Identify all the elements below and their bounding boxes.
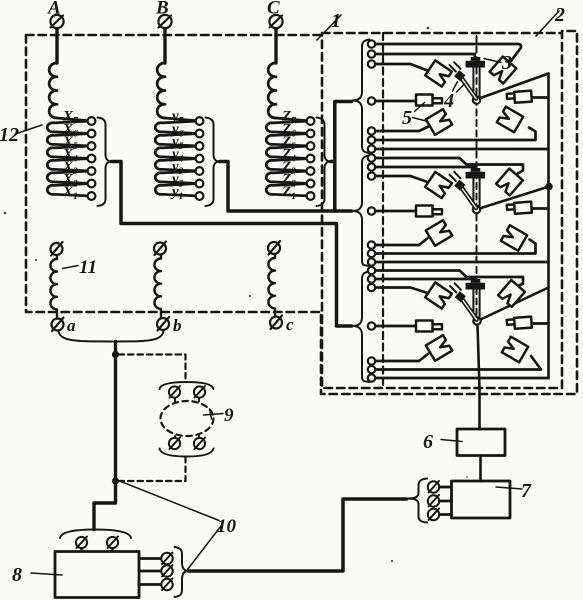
main wire down from a-b bracket (94, 342, 116, 530)
device 9 bottom terminals (169, 438, 205, 450)
wire box 6 to box 7 (479, 456, 482, 482)
svg-text:12: 12 (0, 124, 19, 146)
coil loop and tap lead 2 winding A (47, 171, 91, 184)
svg-text:8: 8 (12, 564, 22, 586)
winding A plain coil (49, 63, 57, 118)
svg-text:5: 5 (402, 107, 412, 129)
diagonal pivot1 to bus (479, 74, 549, 99)
svg-text:7: 7 (521, 480, 532, 502)
fixed contact selector2 right (507, 202, 532, 215)
coil loop and tap lead 5 winding C (266, 134, 310, 147)
dashed link from 9 (bottom) (119, 457, 186, 481)
fixed contact selector2 lower-right (501, 225, 527, 251)
svg-text:c: c (286, 315, 294, 334)
winding B tapped section (taps y1..y7) (155, 118, 199, 196)
coil loop and tap lead 5 winding A (47, 134, 91, 147)
control cable from 8 to 7 (189, 499, 407, 571)
svg-text:4: 4 (443, 90, 454, 112)
selector 1 terminal group brace (353, 40, 370, 154)
wire selector1 terminal1 to upper-right contact (375, 44, 521, 61)
coil loop and tap lead 4 winding C (266, 146, 310, 159)
fixed contact selector3 right (507, 317, 532, 330)
tap labels Z7..Z1 (281, 109, 297, 203)
selector terminal circles group 2 (368, 154, 375, 265)
secondary winding a (11) (50, 242, 76, 335)
coil loop and tap lead 5 winding B (155, 134, 199, 147)
tap lead 7 winding C (276, 118, 310, 121)
coil loop and tap lead 6 winding C (266, 121, 310, 134)
label 3 (484, 52, 512, 74)
selector2 drive shaft (472, 177, 474, 206)
device 9 bottom bracket (160, 449, 214, 457)
svg-text:B: B (155, 0, 169, 19)
winding C tapped section (taps Z1..Z7) (266, 118, 310, 196)
brace for Z taps (317, 118, 331, 207)
device 9 top terminals (169, 386, 205, 398)
label 10 with callouts (119, 481, 237, 570)
wire selector3 terminal7 to output bus (375, 377, 548, 380)
selector 2 terminal group brace (353, 156, 370, 267)
label 11 (63, 257, 97, 278)
fixed contact selector2 upper-left (425, 172, 452, 198)
wire selector3 terminal6 to lower-right contact (375, 356, 541, 370)
coil loop and tap lead 6 winding B (155, 121, 199, 134)
wire selector shaft to box 6 (478, 325, 480, 430)
wire selector1 terminal6 to lower-right contact (375, 128, 535, 141)
dashed box 2 (tap-changer compartment) (322, 33, 562, 388)
tap lead 7 winding B (165, 118, 199, 121)
selector3 drive turret flange (466, 284, 484, 289)
label 6 (423, 431, 462, 453)
box 7 terminals (428, 481, 439, 520)
svg-text:b: b (173, 316, 182, 335)
box 8 top terminals (76, 537, 118, 552)
wire selector2 terminal3 to upper-left contact (375, 176, 427, 182)
fixed contact selector1 upper-left (425, 60, 452, 86)
box 7 (drive control) (452, 481, 511, 518)
cable wire Z taps to selector 1 (331, 102, 352, 212)
svg-text:11: 11 (79, 257, 97, 278)
winding C plain coil (268, 63, 276, 118)
fixed contact selector2 lower-left (426, 220, 452, 246)
junction dot on bus (545, 183, 553, 191)
tap circles X (88, 117, 96, 200)
winding A tapped section (taps X1..X7) (47, 118, 91, 196)
bracket joining a and b (59, 331, 164, 342)
wire selector1 terminal7 to output bus (375, 148, 548, 151)
label 1 (317, 10, 341, 40)
wire selector1 right contact to output bus (532, 96, 549, 99)
fixed contact selector2 left (416, 206, 442, 217)
selector1 drive turret cap (471, 57, 481, 61)
tap circles Z (307, 117, 315, 200)
box 7 group brace (408, 479, 428, 523)
box 8 (automatic control device) (55, 552, 139, 598)
svg-text:2: 2 (554, 4, 565, 26)
wire selector3 terminal2 to moving contact shaft (375, 279, 475, 280)
svg-text:6: 6 (423, 431, 433, 453)
terminal C (267, 0, 283, 63)
selector terminal circles group 3 (368, 267, 375, 382)
fixed contact selector3 upper-right (498, 280, 525, 307)
dashed link to voltage regulator 9 (top) (119, 355, 186, 382)
svg-text:C: C (267, 0, 280, 19)
coil loop and tap lead 4 winding A (47, 146, 91, 159)
fixed contact selector2 upper-right (496, 169, 523, 196)
fixed contact selector3 lower-right (502, 337, 528, 363)
label 4 (443, 82, 465, 113)
unit2 moving arm (450, 172, 477, 208)
svg-text:9: 9 (224, 405, 234, 426)
box 6 (motor drive) (457, 429, 505, 456)
selector2 drive turret cap (471, 168, 481, 172)
selector terminal circles group 1 (368, 40, 375, 152)
wire selector2 terminal7 to output bus (375, 261, 548, 264)
selector3 drive turret cap (471, 279, 481, 283)
svg-text:3: 3 (501, 52, 512, 74)
fixed contact selector1 right (507, 91, 532, 104)
coil loop and tap lead 4 winding B (155, 146, 199, 159)
junction dot lower (112, 477, 119, 484)
selector 3 terminal group brace (353, 272, 370, 383)
wire selector2 terminal6 to lower-right contact (375, 240, 535, 254)
coil loop and tap lead 1 winding C (266, 184, 310, 197)
box 8 right terminals (139, 559, 161, 585)
selector3 drive shaft (472, 288, 474, 317)
coil loop and tap lead 3 winding C (266, 159, 310, 172)
coil loop and tap lead 2 winding C (266, 171, 310, 184)
terminal A (47, 0, 64, 63)
fixed contact selector1 lower-right (497, 107, 523, 133)
brace for y taps (206, 118, 220, 207)
fixed contact selector3 lower-left (426, 335, 452, 361)
fixed contact selector1 left (5) (416, 95, 442, 106)
selector1 pivot (473, 96, 480, 103)
coil loop and tap lead 2 winding B (155, 171, 199, 184)
wire selector3 terminal3 to upper-left contact (375, 288, 427, 294)
label 7 (496, 480, 532, 502)
brace for X taps (98, 118, 112, 207)
wire selector1 terminal5 to lower-left contact (375, 127, 428, 132)
selector1 drive turret flange (466, 62, 484, 67)
fixed contact selector3 upper-left (425, 282, 452, 308)
fixed contact selector3 left (416, 321, 442, 332)
selector3 pivot (473, 317, 480, 324)
selector2 pivot (473, 206, 480, 213)
junction dot upper (112, 351, 119, 358)
inner dashed barrier of selector (382, 33, 384, 388)
label 2 (536, 4, 565, 36)
secondary winding b (154, 242, 182, 336)
tap labels y7..y1 (170, 109, 185, 203)
svg-text:A: A (47, 0, 61, 19)
coil loop and tap lead 1 winding A (47, 184, 91, 197)
secondary winding c (268, 241, 294, 334)
label 5 (402, 103, 428, 130)
unit3 turret drive (466, 279, 484, 325)
unit1 moving arm (450, 62, 477, 98)
label 9 (204, 405, 235, 426)
wire selector3 terminal4 to left contact (375, 325, 416, 328)
output bus (right side) (547, 74, 550, 379)
svg-text:a: a (67, 316, 76, 335)
selector2 drive turret flange (466, 173, 484, 178)
scan specks (4, 27, 468, 563)
device 9 dashed body (161, 401, 214, 436)
label 8 (12, 564, 62, 586)
terminal B (155, 0, 172, 63)
selector1 drive shaft (472, 66, 474, 96)
unit1 turret drive (466, 57, 484, 104)
box 8 feed bracket (60, 530, 131, 539)
device 9 top bracket (160, 382, 214, 389)
wire selector3 right contact to output bus (530, 322, 549, 325)
box 8 right group brace (175, 547, 189, 597)
label 12 (0, 124, 42, 146)
fixed contact selector1 lower-left (5) (426, 109, 452, 135)
dashed box 1 (transformer tank) (26, 31, 577, 394)
selector drive axis (dash line) (476, 36, 478, 318)
fixed contact selector1 upper-right (490, 57, 517, 84)
wire selector2 terminal1 to upper-right contact (375, 158, 523, 177)
wire selector1 terminal2 to moving contact shaft (375, 54, 475, 58)
tap circles y (196, 117, 204, 200)
coil loop and tap lead 6 winding A (47, 121, 91, 134)
winding B plain coil (157, 63, 165, 118)
wire selector2 terminal4 to left contact (375, 210, 416, 213)
svg-text:1: 1 (331, 10, 341, 32)
wire selector2 terminal5 to lower-left contact (375, 238, 428, 246)
wire selector2 right contact to output bus (532, 207, 549, 210)
tap lead 7 winding A (57, 118, 91, 121)
diagonal bus to pivot3 (481, 288, 549, 320)
wire selector3 terminal5 to lower-left contact (375, 354, 428, 362)
tap labels X7..X1 (62, 109, 79, 203)
coil loop and tap lead 3 winding B (155, 159, 199, 172)
coil loop and tap lead 1 winding B (155, 184, 199, 197)
unit2 turret drive (466, 168, 484, 213)
unit3 moving arm (450, 283, 477, 319)
wire selector3 terminal1 to upper-right contact (375, 271, 523, 289)
cable wire y taps to selector 2 (220, 162, 352, 212)
cable wire X taps to selector 3 (112, 162, 352, 327)
wire selector2 terminal2 to moving contact shaft (375, 167, 475, 169)
svg-text:10: 10 (217, 516, 237, 537)
coil loop and tap lead 3 winding A (47, 159, 91, 172)
wire selector1 terminal4 to left contact (375, 100, 416, 103)
diagonal bus dot to pivot2 (480, 187, 550, 209)
wire selector1 terminal3 to upper-left contact (375, 64, 427, 71)
